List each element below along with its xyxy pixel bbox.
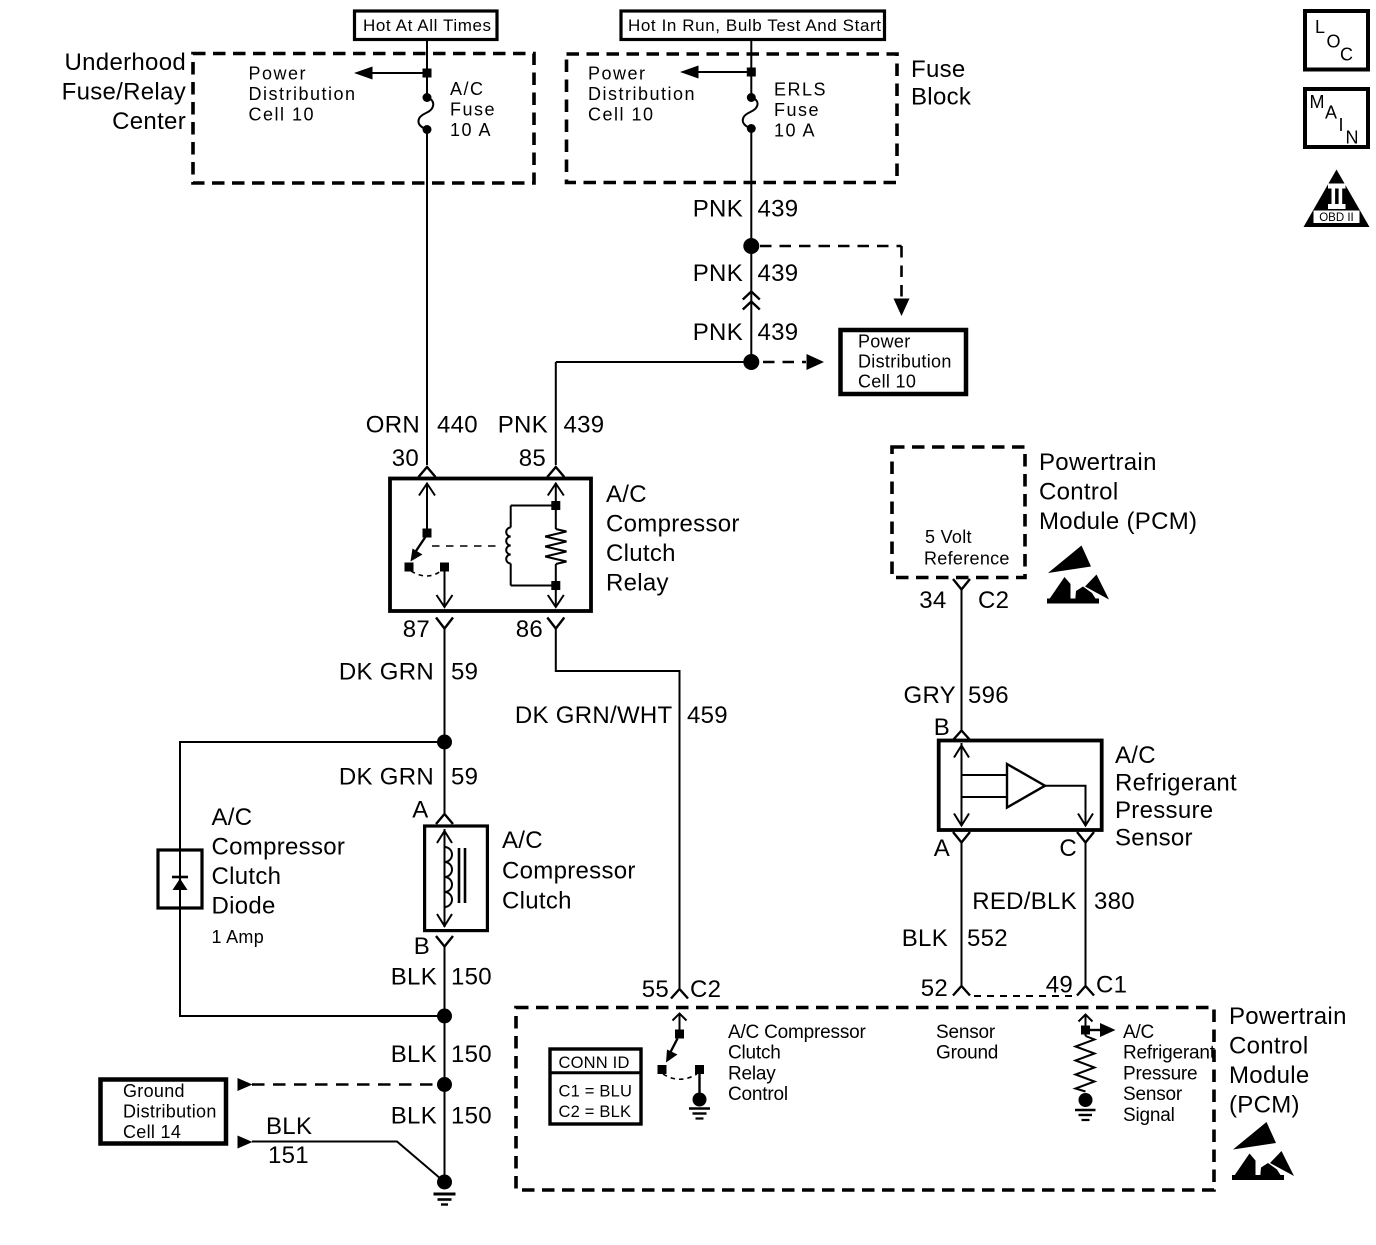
svg-text:BLK: BLK xyxy=(391,1103,437,1130)
svg-text:Reference: Reference xyxy=(924,549,1010,569)
connector chevron at relay pin 85 xyxy=(547,467,564,477)
relay internal: wire to pin 87 with down arrow xyxy=(437,571,453,607)
icon: LOC box xyxy=(1305,11,1368,70)
svg-text:Control: Control xyxy=(1229,1033,1308,1060)
relay internal: contact to pin 87 xyxy=(440,563,449,572)
PCM internal: relay control switch at pin 55 xyxy=(658,1013,705,1094)
svg-text:B: B xyxy=(414,933,430,960)
wire: dashed arrow to Power Distribution box xyxy=(763,354,824,370)
ESD symbol (bottom PCM) xyxy=(1232,1122,1294,1180)
connector Y at sensor pin A xyxy=(953,832,970,843)
svg-text:87: 87 xyxy=(403,616,430,643)
relay internal: switch contact (87 side) xyxy=(405,563,414,572)
svg-text:A/C: A/C xyxy=(502,827,543,854)
wire: PNK 439 from ERLS fuse down xyxy=(750,129,752,363)
svg-text:Hot At All Times: Hot At All Times xyxy=(363,16,492,35)
wire: ORN 440 run from fuse to relay pin 30 xyxy=(426,130,428,466)
svg-text:PNK: PNK xyxy=(693,260,743,287)
svg-text:Distribution: Distribution xyxy=(249,84,357,104)
label: A/C Refrigerant Pressure Sensor xyxy=(1115,742,1237,852)
label: A/C Compressor Clutch Relay xyxy=(606,481,740,597)
svg-text:Clutch: Clutch xyxy=(606,540,676,567)
svg-text:150: 150 xyxy=(451,1103,492,1130)
svg-text:439: 439 xyxy=(758,260,799,287)
connector chevron at PCM pin 49 xyxy=(1077,986,1094,996)
label: RED/BLK 380 xyxy=(972,888,1135,915)
box: Fuse Block (dashed) xyxy=(567,54,898,183)
wire: A/C fuse feed from Hot At All Times xyxy=(426,40,428,98)
svg-text:Refrigerant: Refrigerant xyxy=(1115,770,1237,797)
pin 49 C1 labels xyxy=(1046,972,1128,999)
wire: ERLS fuse feed from Hot In Run xyxy=(750,40,752,98)
svg-text:I: I xyxy=(1339,115,1344,135)
label: Sensor Ground xyxy=(936,1022,998,1064)
clutch internal: plates xyxy=(459,848,465,903)
svg-text:Cell 14: Cell 14 xyxy=(123,1122,181,1142)
label: Power Distribution Cell 10 (underhood box) xyxy=(249,64,357,125)
PCM internal: pressure sensor signal input at pin 49 xyxy=(1079,1014,1116,1037)
label: A/C Compressor Clutch xyxy=(502,827,636,915)
wire: BLK 552 xyxy=(961,843,963,986)
relay internal: switch common dot xyxy=(423,529,432,538)
svg-text:RED/BLK: RED/BLK xyxy=(972,888,1077,915)
icon: MAIN box xyxy=(1305,89,1368,148)
svg-text:ORN: ORN xyxy=(366,412,420,439)
wire: GRY 596 xyxy=(961,590,963,731)
svg-text:Distribution: Distribution xyxy=(588,84,696,104)
svg-text:Diode: Diode xyxy=(212,893,276,920)
relay internal: dashed contact arc xyxy=(411,571,441,576)
svg-text:Fuse: Fuse xyxy=(450,100,496,120)
svg-text:52: 52 xyxy=(921,975,948,1002)
box: Powertrain Control Module bottom (dashed) xyxy=(516,1008,1214,1191)
svg-text:Fuse/Relay: Fuse/Relay xyxy=(62,79,186,106)
svg-text:Powertrain: Powertrain xyxy=(1229,1003,1347,1030)
svg-text:Underhood: Underhood xyxy=(65,49,186,76)
svg-text:C2: C2 xyxy=(978,587,1009,614)
connector chevron at sensor pin B xyxy=(953,731,970,741)
label box: Hot In Run, Bulb Test And Start xyxy=(621,11,885,40)
connector chevron at clutch pin A xyxy=(436,814,453,824)
relay K1: A/C Compressor Clutch Relay box xyxy=(390,479,591,612)
fuse F1: A/C Fuse 10 A xyxy=(418,93,433,134)
svg-text:Distribution: Distribution xyxy=(858,352,952,372)
sensor U1 box: A/C Refrigerant Pressure Sensor xyxy=(939,741,1102,831)
svg-text:C2: C2 xyxy=(690,976,721,1003)
sensor internal: output line with down arrow xyxy=(1045,786,1093,826)
svg-text:Cell 10: Cell 10 xyxy=(858,372,916,392)
box: Underhood Fuse/Relay Center (dashed) xyxy=(193,54,534,184)
label: DK GRN/WHT 459 xyxy=(515,702,728,729)
svg-text:Clutch: Clutch xyxy=(212,863,282,890)
relay internal: dashed actuator line xyxy=(432,545,497,547)
label: BLK 150 (upper) xyxy=(391,964,492,991)
junction: splice at ground distribution branch xyxy=(437,1077,452,1092)
svg-text:Relay: Relay xyxy=(728,1063,776,1084)
wire: DK GRN to clutch pin A xyxy=(444,742,446,813)
label: PNK 439 (upper) xyxy=(693,196,799,223)
svg-text:(PCM): (PCM) xyxy=(1229,1092,1300,1119)
relay internal: coil junction dots xyxy=(551,501,560,510)
svg-text:A: A xyxy=(412,797,428,824)
connector Y at relay pin 87 xyxy=(436,618,453,629)
svg-text:DK GRN: DK GRN xyxy=(339,764,434,791)
svg-text:86: 86 xyxy=(516,616,543,643)
svg-text:Center: Center xyxy=(112,108,186,135)
wire: arrow to Power Distribution (fuse block) xyxy=(680,66,756,79)
svg-text:Clutch: Clutch xyxy=(502,888,572,915)
relay internal: resistor R1 (in parallel with coil) xyxy=(545,483,566,607)
svg-text:BLK: BLK xyxy=(391,964,437,991)
svg-text:Cell 10: Cell 10 xyxy=(588,105,655,125)
svg-text:Fuse: Fuse xyxy=(774,100,820,120)
ESD symbol (top PCM) xyxy=(1047,546,1109,604)
svg-text:380: 380 xyxy=(1094,888,1135,915)
wire: BLK 151 to ground xyxy=(238,1136,445,1183)
svg-text:150: 150 xyxy=(451,964,492,991)
relay internal: pin 85 up arrow xyxy=(548,484,564,496)
sensor internal: op-amp triangle xyxy=(1007,764,1045,808)
box: PCM 5 Volt Reference (dashed) xyxy=(892,447,1025,578)
relay internal: coil L1 xyxy=(506,506,556,586)
svg-text:1 Amp: 1 Amp xyxy=(212,927,265,947)
svg-text:59: 59 xyxy=(451,659,478,686)
label: Power Distribution Cell 10 (fuse block) xyxy=(588,64,696,125)
wire: branch to clutch diode (top) xyxy=(180,742,445,850)
diode D1 box: A/C Compressor Clutch Diode xyxy=(158,850,202,908)
svg-text:Power: Power xyxy=(249,64,308,84)
junction: splice at diode branch bottom xyxy=(437,1009,452,1024)
label: PNK 439 (middle) xyxy=(693,260,799,287)
svg-text:C: C xyxy=(1340,45,1353,65)
svg-text:Module (PCM): Module (PCM) xyxy=(1039,508,1197,535)
svg-text:C2 = BLK: C2 = BLK xyxy=(559,1103,632,1121)
svg-text:552: 552 xyxy=(967,925,1008,952)
wire: RED/BLK 380 xyxy=(1085,843,1087,986)
svg-text:A: A xyxy=(934,835,950,862)
svg-text:Control: Control xyxy=(1039,479,1118,506)
label: Power Distribution Cell 10 (solid box) xyxy=(858,332,952,392)
junction: splice at diode branch top xyxy=(437,735,452,750)
svg-text:Powertrain: Powertrain xyxy=(1039,449,1157,476)
label: Ground Distribution Cell 14 xyxy=(123,1081,217,1142)
svg-text:Fuse: Fuse xyxy=(911,56,966,83)
svg-text:Refrigerant: Refrigerant xyxy=(1123,1043,1216,1064)
label: 5 Volt Reference xyxy=(924,527,1010,569)
junction: PNK splice upper xyxy=(743,238,759,254)
svg-text:30: 30 xyxy=(392,445,419,472)
connector Y at relay pin 86 xyxy=(547,618,564,629)
svg-text:Pressure: Pressure xyxy=(1115,797,1213,824)
svg-text:34: 34 xyxy=(919,587,946,614)
wire through diode box xyxy=(179,850,181,908)
icon: OBD II triangle xyxy=(1304,170,1370,228)
wire: arrow to Power Distribution (underhood box) xyxy=(354,67,432,80)
svg-text:PNK: PNK xyxy=(693,196,743,223)
label: BLK 552 xyxy=(902,925,1008,952)
svg-text:O: O xyxy=(1327,32,1341,52)
svg-text:BLK: BLK xyxy=(902,925,948,952)
svg-text:59: 59 xyxy=(451,764,478,791)
svg-text:Power: Power xyxy=(588,64,647,84)
svg-text:Block: Block xyxy=(911,84,972,111)
svg-text:Pressure: Pressure xyxy=(1123,1063,1197,1084)
connector chevron at PCM pin 52 xyxy=(953,986,970,996)
svg-text:Signal: Signal xyxy=(1123,1105,1175,1126)
svg-text:439: 439 xyxy=(758,319,799,346)
label: ORN 440 xyxy=(366,412,478,439)
relay internal: pin 30 arrow xyxy=(419,483,435,531)
svg-text:Clutch: Clutch xyxy=(728,1043,781,1064)
wire: branch from clutch diode (bottom) xyxy=(180,908,445,1016)
svg-text:Sensor: Sensor xyxy=(1115,825,1193,852)
ground G2: relay control ground xyxy=(689,1093,710,1119)
svg-text:DK GRN/WHT: DK GRN/WHT xyxy=(515,702,673,729)
svg-text:439: 439 xyxy=(758,196,799,223)
label: BLK 151 xyxy=(266,1113,312,1169)
label: DK GRN 59 (upper) xyxy=(339,659,478,686)
svg-text:A/C: A/C xyxy=(1115,742,1156,769)
label: BLK 150 (middle) xyxy=(391,1041,492,1068)
svg-text:150: 150 xyxy=(451,1041,492,1068)
svg-text:Hot In Run, Bulb Test And Star: Hot In Run, Bulb Test And Start xyxy=(628,16,882,35)
svg-text:Sensor: Sensor xyxy=(1123,1084,1183,1105)
label: Powertrain Control Module (PCM) bottom xyxy=(1229,1003,1347,1119)
svg-text:ERLS: ERLS xyxy=(774,80,827,100)
svg-text:5 Volt: 5 Volt xyxy=(925,527,972,547)
svg-text:N: N xyxy=(1346,128,1359,148)
svg-text:A/C Compressor: A/C Compressor xyxy=(728,1022,866,1043)
junction: PNK splice lower xyxy=(743,354,759,370)
clutch internal: coil with arrows xyxy=(437,829,452,927)
label: PNK 439 (lower) xyxy=(693,319,799,346)
svg-text:A/C: A/C xyxy=(212,804,253,831)
label: DK GRN 59 (lower) xyxy=(339,764,478,791)
box: Ground Distribution Cell 14 xyxy=(101,1080,227,1144)
svg-text:PNK: PNK xyxy=(498,412,548,439)
fuse F2: ERLS Fuse 10 A xyxy=(743,93,758,133)
svg-text:439: 439 xyxy=(564,412,605,439)
svg-text:Power: Power xyxy=(858,332,911,352)
label: GRY 596 xyxy=(904,682,1009,709)
diode D1 symbol xyxy=(172,877,188,890)
svg-text:A/C: A/C xyxy=(450,79,485,99)
svg-text:C1: C1 xyxy=(1096,972,1127,999)
label: Fuse Block xyxy=(911,56,972,111)
svg-text:A/C: A/C xyxy=(1123,1022,1154,1043)
svg-text:OBD II: OBD II xyxy=(1319,212,1354,224)
svg-text:C: C xyxy=(1059,835,1077,862)
connector Y at PCM pin 34 xyxy=(953,579,970,590)
svg-text:M: M xyxy=(1310,92,1325,112)
relay internal: switch arm with arrowhead xyxy=(411,536,427,562)
ground G3: sensor signal ground xyxy=(1075,1093,1096,1120)
svg-text:Module: Module xyxy=(1229,1062,1310,1089)
label box: Hot At All Times xyxy=(355,11,498,40)
connector Y at clutch pin B xyxy=(436,936,453,947)
svg-text:Relay: Relay xyxy=(606,570,669,597)
label: BLK 150 (lower) xyxy=(391,1103,492,1130)
ground G1: main ground xyxy=(434,1175,456,1205)
clutch M1 box: A/C Compressor Clutch xyxy=(425,826,488,931)
svg-text:BLK: BLK xyxy=(266,1113,312,1140)
wire: DK GRN/WHT 459 from pin 86 xyxy=(556,629,680,989)
svg-text:85: 85 xyxy=(519,445,546,472)
svg-text:459: 459 xyxy=(687,702,728,729)
svg-text:B: B xyxy=(934,714,950,741)
label: A/C Compressor Clutch Relay Control xyxy=(728,1022,866,1105)
svg-text:Ground: Ground xyxy=(936,1043,998,1064)
svg-text:55: 55 xyxy=(642,976,669,1003)
svg-text:10 A: 10 A xyxy=(450,120,492,140)
svg-text:Compressor: Compressor xyxy=(212,834,346,861)
svg-text:596: 596 xyxy=(968,682,1009,709)
sensor internal: supply line with arrows xyxy=(954,743,1007,826)
svg-text:Sensor: Sensor xyxy=(936,1022,996,1043)
label: Underhood Fuse/Relay Center xyxy=(62,49,186,135)
connector chevron at PCM pin 55 xyxy=(671,989,688,999)
svg-text:10 A: 10 A xyxy=(774,121,816,141)
svg-text:440: 440 xyxy=(437,412,478,439)
connector Y at sensor pin C xyxy=(1077,832,1094,843)
wire: BLK 150 from clutch pin B down to ground xyxy=(444,947,446,1183)
label: Powertrain Control Module (PCM) top xyxy=(1039,449,1197,535)
label: A/C Refrigerant Pressure Sensor Signal xyxy=(1123,1022,1216,1126)
svg-text:Distribution: Distribution xyxy=(123,1102,217,1122)
svg-text:L: L xyxy=(1315,17,1325,37)
wire: dashed branch to Ground Distribution xyxy=(238,1078,438,1091)
svg-text:Control: Control xyxy=(728,1084,788,1105)
connector chevron at relay pin 30 xyxy=(419,467,436,477)
svg-text:GRY: GRY xyxy=(904,682,956,709)
label: A/C Fuse 10 A xyxy=(450,79,496,140)
pin 55 C2 labels xyxy=(642,976,722,1003)
svg-text:A/C: A/C xyxy=(606,481,647,508)
label: ERLS Fuse 10 A xyxy=(774,80,827,141)
wire: PNK 439 over to relay pin 85 xyxy=(556,362,752,465)
wire: dashed connector line between 52 and 49 xyxy=(974,995,1072,997)
label: PNK 439 (at relay) xyxy=(498,412,605,439)
svg-text:BLK: BLK xyxy=(391,1041,437,1068)
svg-text:A: A xyxy=(1325,103,1337,123)
svg-text:PNK: PNK xyxy=(693,319,743,346)
svg-text:151: 151 xyxy=(268,1142,309,1169)
svg-text:49: 49 xyxy=(1046,972,1073,999)
svg-text:Compressor: Compressor xyxy=(502,858,636,885)
svg-text:Cell 10: Cell 10 xyxy=(249,105,316,125)
box: CONN ID table xyxy=(550,1049,641,1124)
box: Power Distribution Cell 10 (solid, right) xyxy=(841,330,967,394)
label: A/C Compressor Clutch Diode 1 Amp xyxy=(212,804,346,947)
svg-text:Ground: Ground xyxy=(123,1081,185,1101)
svg-text:C1 = BLU: C1 = BLU xyxy=(559,1083,633,1101)
wire: DK GRN 59 from pin 87 down xyxy=(444,629,446,743)
relay internal: pin 86 down arrow xyxy=(548,595,564,607)
resistor R2: sensor signal pull resistor xyxy=(1076,1036,1095,1092)
wire: dashed branch to Power Distribution Cell 10 (down arrow) xyxy=(760,246,910,316)
svg-text:CONN ID: CONN ID xyxy=(559,1054,630,1072)
connector: in-line double chevron on PNK 439 xyxy=(743,292,760,310)
svg-text:Compressor: Compressor xyxy=(606,511,740,538)
pin 34 C2 labels xyxy=(919,587,1009,614)
svg-text:DK GRN: DK GRN xyxy=(339,659,434,686)
